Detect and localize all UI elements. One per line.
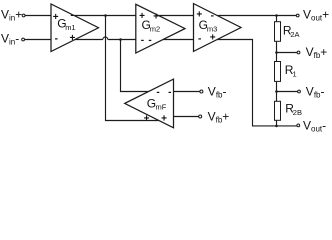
svg-text:2B: 2B <box>293 108 302 117</box>
svg-text:-: - <box>156 87 159 98</box>
svg-text:-: - <box>55 34 58 45</box>
svg-text:-: - <box>148 35 151 46</box>
svg-text:m1: m1 <box>65 23 75 32</box>
svg-text:-: - <box>211 10 214 21</box>
svg-text:-: - <box>70 10 73 21</box>
svg-text:+: + <box>210 33 216 44</box>
svg-text:-: - <box>141 35 144 46</box>
svg-text:+: + <box>144 114 150 125</box>
svg-text:+: + <box>153 11 159 22</box>
svg-text:-: - <box>198 34 201 45</box>
svg-text:m3: m3 <box>207 24 217 33</box>
svg-text:+: + <box>69 33 75 44</box>
svg-text:2A: 2A <box>290 30 299 39</box>
svg-text:m2: m2 <box>150 24 160 33</box>
svg-text:+: + <box>161 114 167 125</box>
svg-text:1: 1 <box>293 69 297 78</box>
svg-text:-: - <box>168 87 171 98</box>
svg-text:mF: mF <box>156 102 167 111</box>
